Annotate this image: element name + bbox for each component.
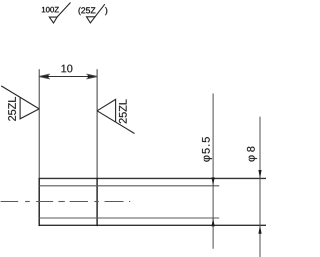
dimension phi8 arrowhead bottom	[258, 225, 261, 233]
surface mark left 25ZL triangle	[20, 97, 39, 118]
surface mark left 25ZL text	[8, 97, 16, 121]
dimension phi5.5 value text	[202, 137, 212, 162]
surface mark left 25ZL tail line	[1, 86, 39, 109]
dimension 10 arrowhead right	[86, 74, 97, 79]
part outline top edge	[39, 177, 266, 179]
dimension phi5.5 dimension line	[212, 94, 214, 249]
surface mark right 25ZL tail line	[97, 111, 134, 134]
surface mark right 25ZL triangle	[97, 99, 116, 122]
dimension phi5.5 arrowhead top	[212, 177, 215, 185]
dimension 10 value text	[61, 65, 72, 73]
dimension 10 dimension line	[39, 76, 97, 78]
dimension phi8 arrowhead top	[258, 170, 261, 178]
part outline left end face	[38, 178, 40, 226]
dimension phi8 dimension line	[259, 117, 261, 257]
dimension phi5.5 arrowhead bottom	[212, 218, 215, 226]
surface finish note 100Z text	[42, 7, 59, 13]
dimension 10 extension line right	[96, 69, 98, 177]
surface finish note (25Z) text	[79, 7, 96, 15]
part outline bottom edge	[39, 224, 266, 226]
surface finish note (25Z) check symbol	[87, 4, 105, 23]
surface mark right 25ZL text	[119, 99, 127, 123]
bore line bottom phi5.5	[39, 217, 219, 219]
centerline	[1, 201, 131, 203]
dimension phi8 value text	[247, 147, 257, 162]
surface finish note 100Z check symbol	[49, 3, 70, 24]
bore line top phi5.5	[39, 185, 219, 187]
dimension 10 arrowhead left	[39, 74, 50, 79]
surface finish note closing paren	[105, 7, 107, 15]
part step line	[96, 178, 98, 226]
dimension 10 extension line left	[38, 69, 40, 177]
